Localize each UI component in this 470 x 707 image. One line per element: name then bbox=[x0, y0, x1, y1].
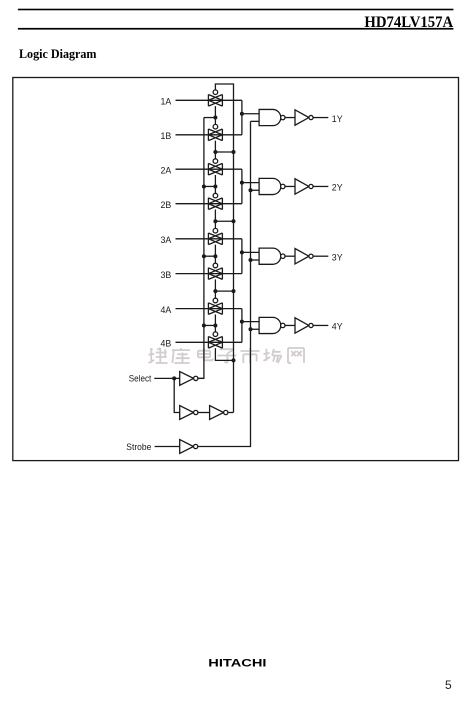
transmission gate 3B bbox=[208, 268, 222, 280]
junction left rail junction at 2A bbox=[202, 184, 206, 188]
wire input 4A signal line bbox=[176, 308, 242, 310]
transmission gate 3A bbox=[208, 233, 222, 245]
NAND gate G2 bbox=[259, 178, 281, 194]
wire channel 1 NAND top input bbox=[242, 113, 259, 115]
inverter output inverter 1 bbox=[295, 110, 309, 125]
svg-text:1A: 1A bbox=[161, 97, 172, 108]
svg-text:4B: 4B bbox=[161, 339, 172, 350]
wire channel 4 NAND bottom input bbox=[251, 328, 260, 330]
svg-text:1Y: 1Y bbox=[332, 114, 343, 125]
wire channel 3 A/B join vertical bbox=[241, 239, 243, 274]
wire left control rail bbox=[198, 118, 204, 379]
diagram border box bbox=[13, 78, 459, 461]
wire channel 4 NAND top input bbox=[242, 321, 259, 323]
wire NAND 3 to inverter bbox=[285, 255, 295, 257]
transmission gate 2A bbox=[208, 163, 222, 175]
watermark band (CJK site watermark, light gray) bbox=[149, 348, 305, 363]
junction channel 3 join node bbox=[240, 250, 244, 254]
wire U3 output to right rail bbox=[228, 412, 234, 414]
junction node below 1A bbox=[213, 116, 217, 120]
svg-text:3A: 3A bbox=[161, 235, 172, 246]
svg-text:3Y: 3Y bbox=[332, 252, 343, 263]
junction right rail junction below 1B bbox=[232, 150, 236, 154]
junction strobe rail junction channel 3 bbox=[249, 258, 253, 262]
wire channel 2 A/B join vertical bbox=[241, 169, 243, 204]
svg-text:2Y: 2Y bbox=[332, 183, 343, 194]
wire input 2B signal line bbox=[176, 203, 242, 205]
inverter select buffer inverter U2 bbox=[180, 406, 194, 420]
wire NAND 1 to inverter bbox=[285, 117, 295, 119]
wire tap 3A node to left rail bbox=[204, 255, 216, 257]
wire input 1A signal line bbox=[176, 99, 242, 101]
wire input 3B signal line bbox=[176, 273, 242, 275]
svg-text:3B: 3B bbox=[161, 270, 172, 281]
wire input 4B signal line bbox=[176, 341, 242, 343]
inverter strobe inverter U4 bbox=[180, 440, 194, 454]
junction channel 1 join node bbox=[240, 112, 244, 116]
header rule bottom bbox=[18, 28, 454, 30]
junction node below 2A bbox=[213, 184, 217, 188]
wire control link below 3A bbox=[214, 245, 216, 264]
wire input 1B signal line bbox=[176, 134, 242, 136]
wire strobe input wire bbox=[155, 446, 180, 448]
wire control link below 4A bbox=[214, 314, 216, 332]
junction right rail junction below 3B bbox=[232, 289, 236, 293]
inverter select buffer inverter U3 bbox=[210, 406, 224, 420]
wire channel 2 NAND bottom input bbox=[251, 189, 260, 191]
junction node below 1B bbox=[213, 150, 217, 154]
inverter output inverter 2 bbox=[295, 179, 309, 194]
wire tap 4A node to left rail bbox=[204, 324, 216, 326]
junction channel 4 join node bbox=[240, 320, 244, 324]
wire tap 1A node to left rail bbox=[204, 117, 216, 119]
wire U2 to U3 wire bbox=[198, 412, 210, 414]
wire output wire 2Y bbox=[313, 185, 328, 187]
transmission gate 1B bbox=[208, 129, 222, 141]
wire input 3A signal line bbox=[176, 238, 242, 240]
wire tap 1B node to right rail bbox=[215, 151, 233, 153]
svg-text:Select: Select bbox=[129, 374, 152, 384]
junction left rail junction at 3A bbox=[202, 254, 206, 258]
junction select branch node bbox=[172, 376, 176, 380]
wire NAND 2 to inverter bbox=[285, 185, 295, 187]
junction right rail junction below 2B bbox=[232, 219, 236, 223]
wire output wire 3Y bbox=[313, 255, 328, 257]
wire input 2A signal line bbox=[176, 168, 242, 170]
NAND gate G4 bbox=[259, 317, 281, 333]
wire top loop from 1A bubble to right rail bbox=[215, 84, 233, 413]
wire select inverter U1 output to left rail bbox=[198, 377, 204, 379]
svg-text:4Y: 4Y bbox=[332, 322, 343, 333]
wire channel 1 NAND bottom input bbox=[251, 120, 260, 122]
svg-text:Logic Diagram: Logic Diagram bbox=[19, 47, 97, 61]
junction strobe rail junction channel 4 bbox=[249, 327, 253, 331]
junction strobe rail junction channel 2 bbox=[249, 188, 253, 192]
svg-text:HITACHI: HITACHI bbox=[208, 657, 266, 669]
wire control link below 1B bbox=[214, 141, 216, 159]
wire control link below 3B bbox=[214, 279, 216, 298]
transmission gate 4B bbox=[208, 337, 222, 349]
junction left rail junction at 4A bbox=[202, 323, 206, 327]
wire channel 1 A/B join vertical bbox=[241, 100, 243, 135]
inverter output inverter 3 bbox=[295, 249, 309, 264]
svg-text:1B: 1B bbox=[161, 131, 172, 142]
wire tap 3B node to right rail bbox=[215, 290, 233, 292]
wire NAND 4 to inverter bbox=[285, 324, 295, 326]
header rule top bbox=[18, 9, 454, 11]
wire tap 2B node to right rail bbox=[215, 220, 233, 222]
wire select branch down bbox=[174, 378, 180, 412]
wire channel 4 A/B join vertical bbox=[241, 309, 243, 343]
svg-text:4A: 4A bbox=[161, 305, 172, 316]
junction node below 4A bbox=[213, 323, 217, 327]
junction node below 3B bbox=[213, 289, 217, 293]
wire control link below 2A bbox=[214, 175, 216, 193]
junction channel 2 join node bbox=[240, 181, 244, 185]
transmission gate 4A bbox=[208, 303, 222, 315]
transmission gate 2B bbox=[208, 198, 222, 210]
wire channel 3 NAND bottom input bbox=[251, 259, 260, 261]
junction node below 3A bbox=[213, 254, 217, 258]
wire control link below 2B bbox=[214, 210, 216, 229]
wire select input wire bbox=[154, 377, 179, 379]
wire output wire 1Y bbox=[313, 117, 328, 119]
transmission gate 1A bbox=[208, 95, 222, 107]
wire channel 3 NAND top input bbox=[242, 251, 259, 253]
NAND gate G1 bbox=[259, 109, 281, 125]
inverter output inverter 4 bbox=[295, 318, 309, 333]
wire output wire 4Y bbox=[313, 324, 328, 326]
wire control link below 4B to right rail bbox=[215, 348, 233, 360]
svg-text:2A: 2A bbox=[161, 165, 172, 176]
svg-text:2B: 2B bbox=[161, 200, 172, 211]
wire tap 2A node to left rail bbox=[204, 185, 216, 187]
NAND gate G3 bbox=[259, 248, 281, 264]
svg-text:Strobe: Strobe bbox=[126, 442, 151, 452]
junction node below 2B bbox=[213, 219, 217, 223]
svg-text:5: 5 bbox=[445, 678, 452, 692]
wire strobe rail bbox=[198, 121, 250, 446]
junction right rail junction below 4B bbox=[232, 358, 236, 362]
wire control link below 1A bbox=[214, 106, 216, 124]
inverter select inverter U1 bbox=[180, 372, 194, 386]
wire channel 2 NAND top input bbox=[242, 182, 259, 184]
